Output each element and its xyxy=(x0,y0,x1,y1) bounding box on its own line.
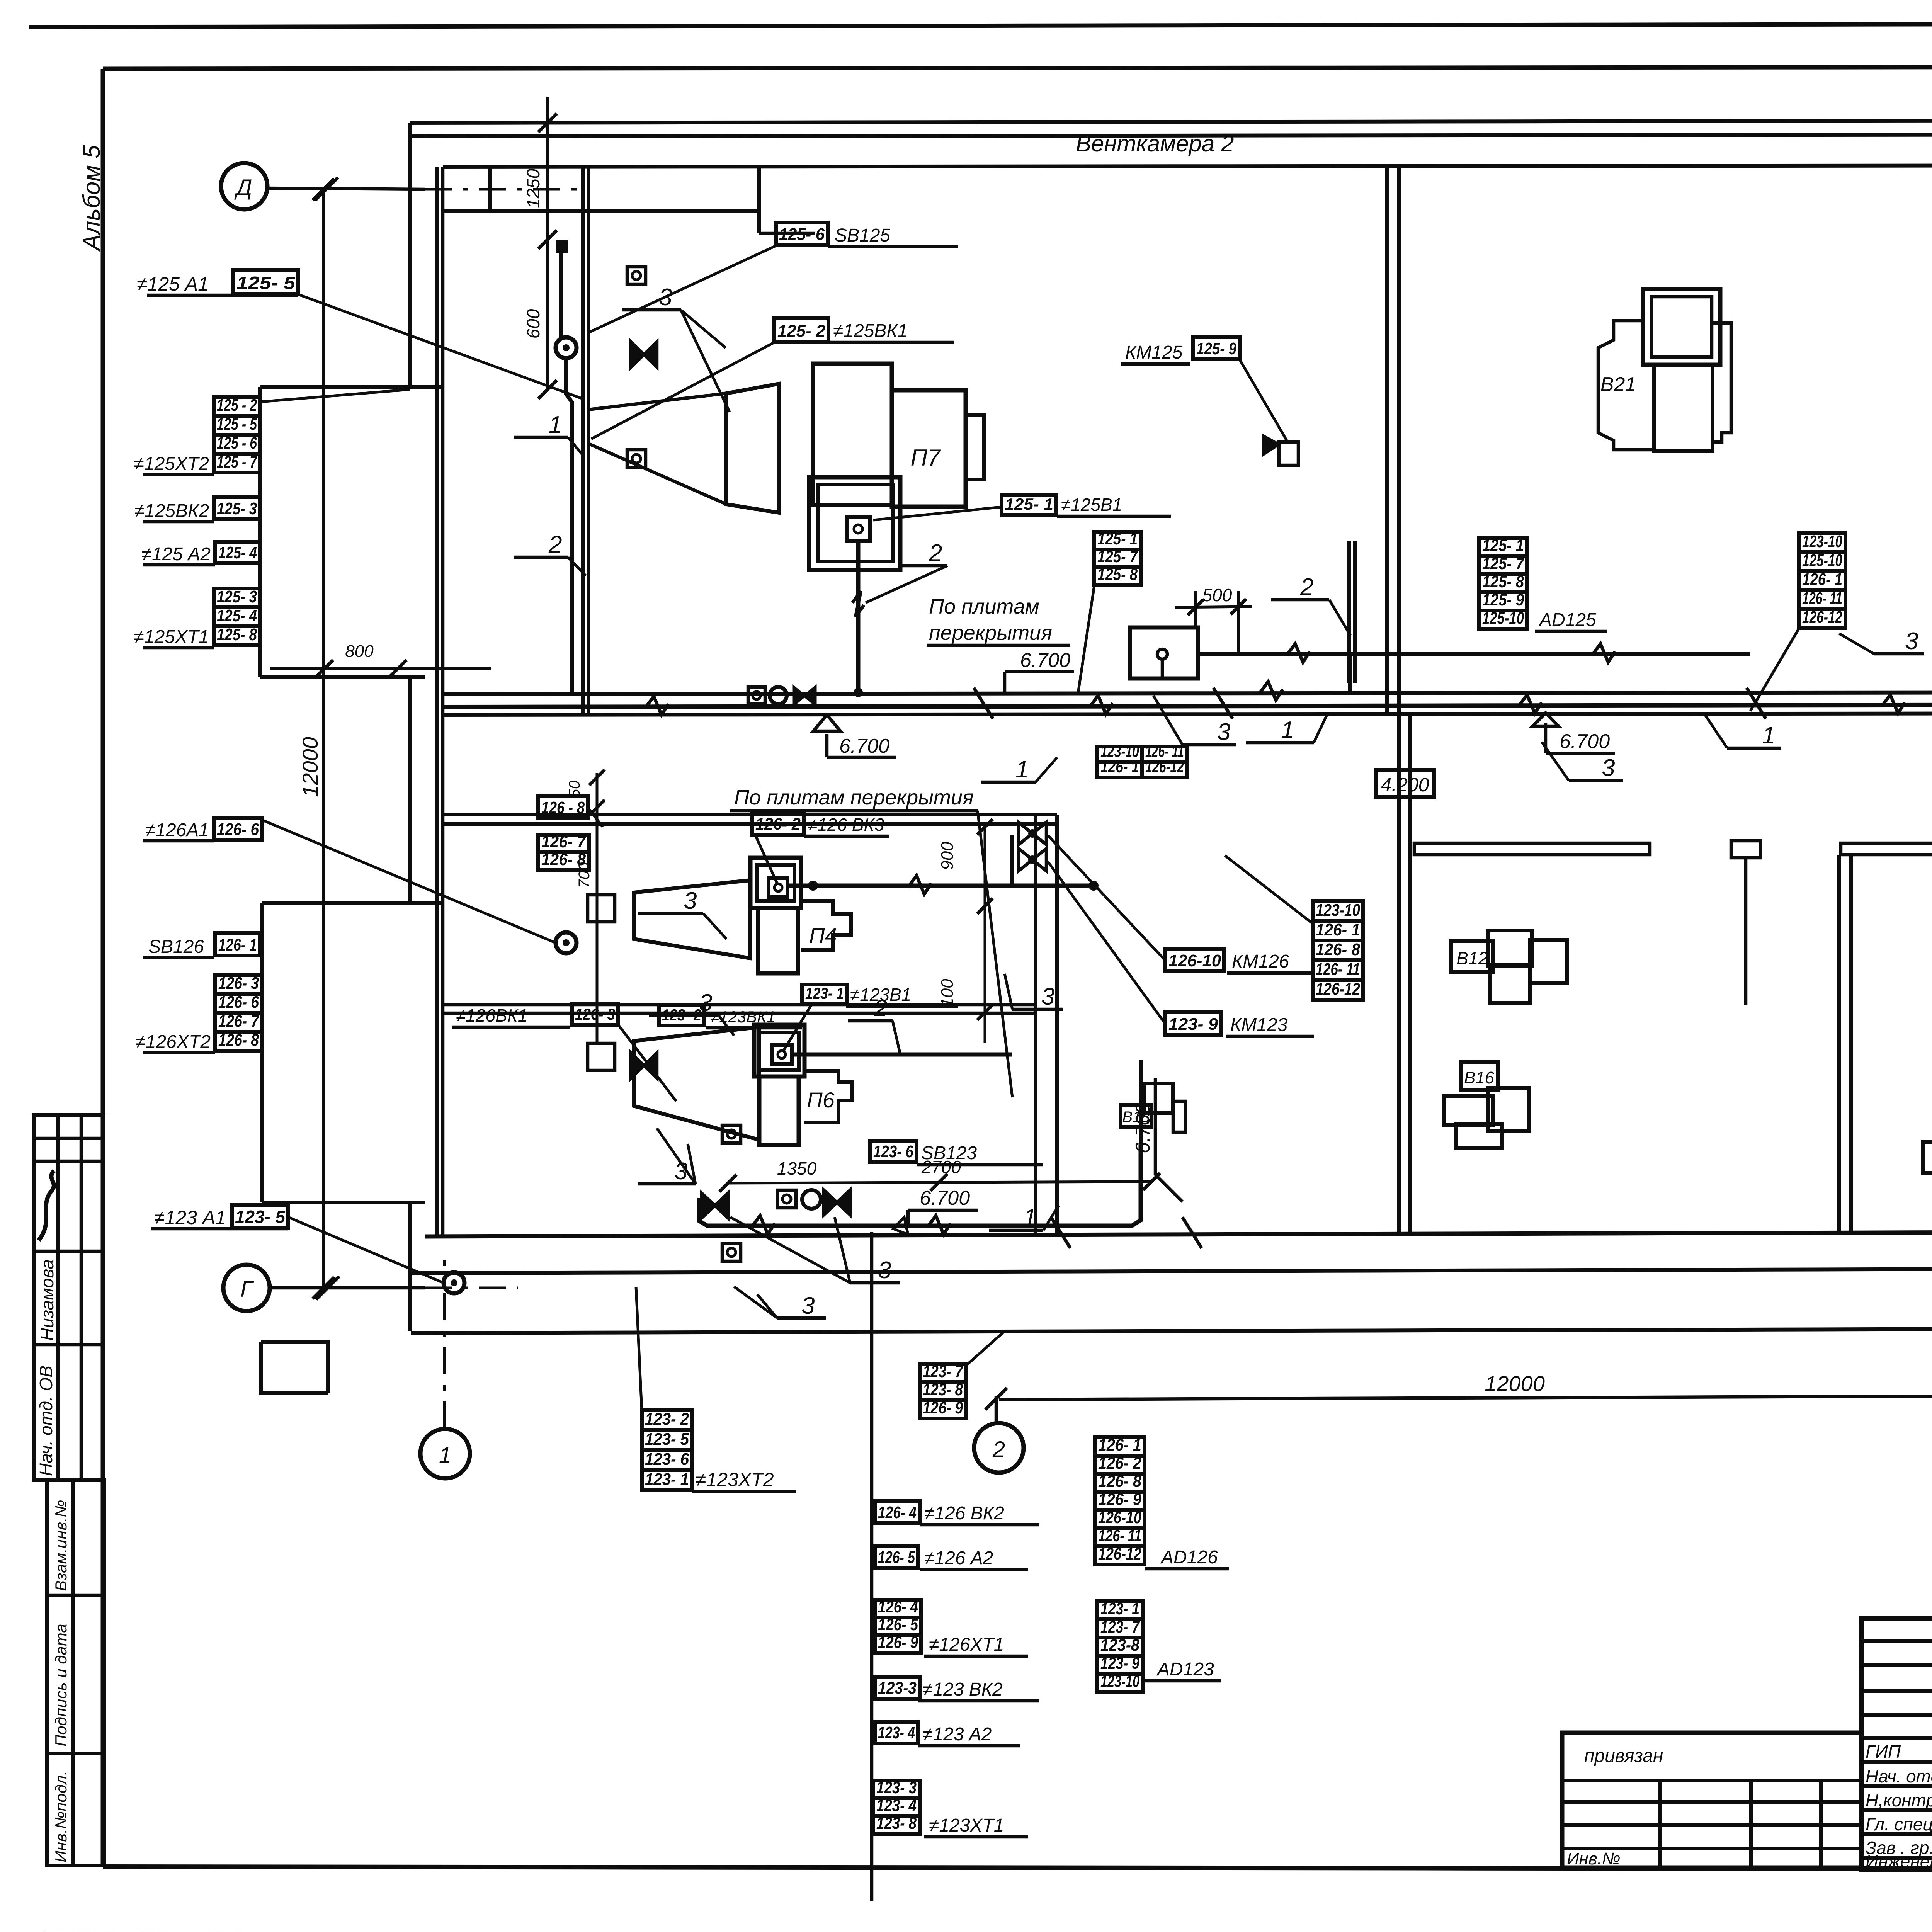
P4 duct xyxy=(588,895,615,922)
vent unit B16 left box xyxy=(1444,1096,1493,1125)
bottom leader vertical xyxy=(870,1232,874,1901)
svg-text:В16: В16 xyxy=(1464,1068,1495,1087)
svg-text:1: 1 xyxy=(549,412,562,438)
mid wall bottom line xyxy=(443,713,1932,715)
cable junction dot a xyxy=(809,882,817,889)
lower rooms top wall line 2 xyxy=(443,822,1057,826)
leader KM125 xyxy=(1240,359,1287,440)
dim tick 900b xyxy=(977,898,993,914)
west wall inner line full xyxy=(435,387,439,903)
top-left dim tick 3 xyxy=(538,380,557,399)
svg-text:600: 600 xyxy=(523,309,543,338)
svg-text:123- 2: 123- 2 xyxy=(645,1410,689,1429)
svg-text:3: 3 xyxy=(699,990,712,1016)
svg-text:6.700: 6.700 xyxy=(1020,649,1070,672)
svg-text:3: 3 xyxy=(659,284,672,311)
south outline line C xyxy=(411,1328,1932,1333)
P7 funnel xyxy=(726,384,779,513)
stack 126-3 group xyxy=(215,975,262,994)
label 123VK2 xyxy=(875,1677,920,1699)
leader 126VK3 xyxy=(755,835,778,885)
cable south break 2 xyxy=(927,1216,951,1234)
vertical dim tick bottom xyxy=(313,1277,334,1299)
device circle on wall xyxy=(770,687,787,704)
svg-text:КМ126: КМ126 xyxy=(1232,951,1289,972)
label 123VK1 xyxy=(659,1005,704,1026)
svg-text:126-12: 126-12 xyxy=(1316,980,1360,998)
svg-text:Венткамера 2: Венткамера 2 xyxy=(1076,131,1234,156)
svg-text:123- 6: 123- 6 xyxy=(873,1142,913,1161)
paper top edge line xyxy=(29,23,1932,27)
svg-text:126- 6: 126- 6 xyxy=(218,993,259,1012)
svg-text:Взам.инв.№: Взам.инв.№ xyxy=(52,1500,70,1591)
fan unit P7 motor circle xyxy=(854,525,862,533)
mid wall cable line xyxy=(443,705,1932,707)
junction circle symbol 2 xyxy=(556,932,577,953)
vent unit B12 bottom square xyxy=(1490,964,1530,1003)
dim tick 800a xyxy=(316,660,333,677)
fire damper black square xyxy=(556,240,568,253)
stack 126-4 group xyxy=(875,1600,921,1617)
dim tick 500b xyxy=(1231,599,1246,614)
svg-text:≠123 А2: ≠123 А2 xyxy=(923,1724,992,1745)
title row line 7 xyxy=(1861,1784,1932,1788)
leader stack 123-2 xyxy=(636,1287,642,1411)
vent unit B12 right box xyxy=(1530,940,1567,983)
stack 125-3 group xyxy=(214,588,260,607)
svg-text:126- 3: 126- 3 xyxy=(218,974,259,993)
label 126 A2b xyxy=(875,1546,918,1568)
cable P7 breakmark xyxy=(852,591,864,617)
title annex row privyazan bottom xyxy=(1562,1779,1861,1782)
girder band mid square xyxy=(1731,841,1760,858)
svg-text:123- 4: 123- 4 xyxy=(876,1796,917,1815)
svg-text:≠126 ВК2: ≠126 ВК2 xyxy=(924,1503,1004,1524)
svg-text:126- 1: 126- 1 xyxy=(1100,757,1139,776)
stack 126-7 8 group xyxy=(538,835,589,852)
svg-text:125- 4: 125- 4 xyxy=(218,543,257,562)
axis 2 circle xyxy=(974,1423,1024,1473)
dim line 1350-2700 xyxy=(726,1182,1151,1183)
leader 125-5 xyxy=(298,294,583,399)
air valve bowtie 2 xyxy=(631,1053,657,1078)
fan unit P4 base outer xyxy=(750,858,801,908)
fan unit P7 base outer xyxy=(809,477,900,570)
svg-text:Нач. отд.: Нач. отд. xyxy=(1866,1766,1932,1786)
svg-text:125- 3: 125- 3 xyxy=(217,499,257,518)
svg-text:≠126ХТ2: ≠126ХТ2 xyxy=(136,1032,211,1052)
svg-text:АD123: АD123 xyxy=(1156,1659,1214,1680)
hall wall line 2 xyxy=(1849,855,1853,1233)
svg-text:12000: 12000 xyxy=(1485,1371,1545,1396)
svg-text:≠126 А2: ≠126 А2 xyxy=(924,1548,993,1568)
svg-text:125- 2: 125- 2 xyxy=(777,321,826,340)
svg-text:П4: П4 xyxy=(809,923,837,947)
stamp upper table outline xyxy=(34,1115,104,1480)
svg-text:125- 4: 125- 4 xyxy=(217,606,257,625)
svg-text:125 - 6: 125 - 6 xyxy=(217,434,257,452)
top-left dim tick 1 xyxy=(538,114,557,132)
leader 126-8 xyxy=(588,808,603,827)
closet divider xyxy=(488,167,492,211)
stamp upper row line 0 xyxy=(34,1137,104,1140)
device box with circle 5 xyxy=(748,687,765,704)
south bulge lines xyxy=(261,1342,328,1393)
fan unit P6 motor circle xyxy=(778,1051,786,1058)
label KM126 xyxy=(1165,949,1224,971)
cable riser vertical xyxy=(1132,1060,1141,1226)
svg-text:125-10: 125-10 xyxy=(1482,609,1524,628)
svg-text:КМ123: КМ123 xyxy=(1230,1015,1288,1035)
vent unit B16 plate xyxy=(1461,1062,1498,1090)
label 126VK2 xyxy=(875,1501,920,1523)
svg-text:6.700: 6.700 xyxy=(1560,730,1610,753)
svg-text:≠126ВК1: ≠126ВК1 xyxy=(456,1005,527,1026)
svg-text:ГИП: ГИП xyxy=(1866,1742,1901,1762)
svg-text:1250: 1250 xyxy=(523,168,543,208)
svg-text:2: 2 xyxy=(992,1437,1005,1462)
axis 2 line xyxy=(995,1396,998,1423)
vent unit B20 plate xyxy=(1923,1142,1932,1173)
axis 1 circle xyxy=(420,1429,470,1478)
central wall upper line 2 xyxy=(1397,165,1401,715)
svg-text:3: 3 xyxy=(801,1293,815,1319)
svg-text:≠126ХТ1: ≠126ХТ1 xyxy=(929,1634,1004,1655)
svg-text:АD126: АD126 xyxy=(1160,1547,1218,1568)
cable vent break 1 xyxy=(1287,644,1310,662)
svg-text:По плитам перекрытия: По плитам перекрытия xyxy=(734,786,974,809)
axis G dash into plan xyxy=(425,1287,518,1289)
svg-text:Альбом 5: Альбом 5 xyxy=(78,145,105,252)
stack 2x2 group xyxy=(1097,747,1142,762)
svg-text:≠126А1: ≠126А1 xyxy=(145,820,209,840)
west bulge2 bottom line xyxy=(262,1201,425,1204)
svg-text:3: 3 xyxy=(1217,719,1230,745)
P4P6 divider line 2 xyxy=(443,1012,1036,1015)
axis D circle xyxy=(221,163,267,209)
vent unit B16 center square xyxy=(1488,1088,1529,1131)
west wall outer line xyxy=(408,123,412,387)
svg-text:125- 1: 125- 1 xyxy=(1097,529,1138,548)
svg-text:3: 3 xyxy=(1602,755,1615,781)
P7 room top xyxy=(759,232,815,235)
fan unit P6 side xyxy=(804,1071,852,1122)
title annex row line 4 xyxy=(1562,1847,1861,1850)
label SB125 xyxy=(776,223,828,245)
svg-text:126- 6: 126- 6 xyxy=(217,820,259,839)
title main outline xyxy=(1861,1619,1932,1869)
top-left dim line 1250-600 xyxy=(546,97,549,389)
leader 125V1 xyxy=(873,507,1002,520)
air valve bowtie 3 xyxy=(702,1193,728,1218)
west inner wall line xyxy=(441,167,445,1235)
stack 126-1 seven group xyxy=(1095,1437,1145,1456)
axis G tick xyxy=(316,1276,339,1299)
svg-text:126- 4: 126- 4 xyxy=(878,1503,917,1522)
svg-text:123- 9: 123- 9 xyxy=(1100,1654,1139,1673)
fan unit P7 side box xyxy=(892,390,966,507)
P7 duct line 1 xyxy=(588,393,726,410)
svg-text:125- 3: 125- 3 xyxy=(217,587,257,606)
girder band rect 1 xyxy=(1414,843,1650,855)
west bulge top line xyxy=(260,385,443,389)
svg-text:900: 900 xyxy=(938,842,957,870)
dim line 500 xyxy=(1175,607,1252,607)
svg-text:126- 1: 126- 1 xyxy=(1316,920,1360,939)
svg-text:123- 1: 123- 1 xyxy=(1100,1599,1139,1618)
svg-text:≠125ВК1: ≠125ВК1 xyxy=(833,321,908,341)
svg-text:126- 1: 126- 1 xyxy=(1802,570,1842,589)
svg-text:≠123ХТ1: ≠123ХТ1 xyxy=(929,1815,1004,1836)
device box with circle 6 xyxy=(777,1190,796,1208)
svg-text:SВ123: SВ123 xyxy=(921,1143,977,1163)
svg-text:126- 9: 126- 9 xyxy=(878,1633,918,1652)
svg-text:125- 7: 125- 7 xyxy=(1097,547,1138,566)
west bulge bottom line xyxy=(260,675,425,679)
svg-text:≠125ВК2: ≠125ВК2 xyxy=(134,501,209,521)
title annex row line 2 xyxy=(1562,1800,1861,1804)
vent unit B21 right flange xyxy=(1713,323,1731,442)
svg-text:123- 1: 123- 1 xyxy=(645,1470,689,1489)
cable partition vertical xyxy=(559,253,563,340)
frame top border line xyxy=(103,66,1932,69)
svg-text:126-10: 126-10 xyxy=(1168,951,1221,970)
svg-text:126- 7: 126- 7 xyxy=(218,1012,260,1031)
stack 123-7 group xyxy=(920,1364,966,1382)
svg-text:перекрытия: перекрытия xyxy=(929,621,1052,645)
svg-text:123- 8: 123- 8 xyxy=(876,1814,917,1833)
svg-text:126- 7: 126- 7 xyxy=(541,832,587,851)
svg-text:123- 6: 123- 6 xyxy=(645,1450,689,1469)
stamp lower row line 2 xyxy=(47,1752,104,1755)
mid wall top line xyxy=(443,692,1932,694)
device box with circle 1 xyxy=(627,267,646,284)
cable south wall run xyxy=(699,1144,1141,1226)
stamp upper row line 3 xyxy=(34,1343,104,1347)
KM125 device xyxy=(1279,442,1298,465)
svg-text:Низамова: Низамова xyxy=(37,1259,57,1341)
svg-text:126- 3: 126- 3 xyxy=(575,1005,615,1023)
leader stack 123-7 xyxy=(966,1331,1005,1366)
svg-text:3: 3 xyxy=(1905,628,1918,655)
svg-text:≠125 А2: ≠125 А2 xyxy=(142,544,211,565)
svg-text:123- 3: 123- 3 xyxy=(876,1778,917,1797)
svg-text:Инв.№подл.: Инв.№подл. xyxy=(52,1771,70,1862)
svg-text:123- 7: 123- 7 xyxy=(1100,1617,1140,1636)
svg-text:2: 2 xyxy=(874,995,887,1022)
dim tick 1350a xyxy=(719,1175,736,1192)
P7 room wall xyxy=(757,167,761,233)
air valve black triangle 1 xyxy=(794,687,815,705)
svg-text:Нач. отд. ОВ: Нач. отд. ОВ xyxy=(36,1366,56,1476)
vent partition wall line 1 xyxy=(581,167,585,715)
lower central wall line 1 xyxy=(1034,815,1037,1235)
svg-text:1: 1 xyxy=(1281,717,1294,743)
mid cable tick 1 xyxy=(974,688,993,719)
west wall inner line 3 xyxy=(435,903,439,1235)
svg-text:123-10: 123-10 xyxy=(1316,901,1360,920)
stamp upper row line 1 xyxy=(34,1160,104,1163)
cable device box 500 xyxy=(1130,628,1198,679)
svg-text:125- 1: 125- 1 xyxy=(1482,536,1524,555)
leader 126A1 xyxy=(262,820,556,943)
svg-text:126- 4: 126- 4 xyxy=(878,1597,918,1616)
stack 125-1 group xyxy=(1094,532,1141,549)
bottom dim line 12000 xyxy=(999,1396,1932,1400)
svg-text:4.200: 4.200 xyxy=(1381,774,1429,796)
svg-text:1: 1 xyxy=(1023,1204,1036,1231)
svg-text:≠125ХТ1: ≠125ХТ1 xyxy=(134,627,209,647)
svg-text:123-10: 123-10 xyxy=(1802,532,1842,551)
svg-text:125 - 2: 125 - 2 xyxy=(217,396,257,415)
svg-text:123- 9: 123- 9 xyxy=(1168,1015,1218,1034)
svg-text:6.700: 6.700 xyxy=(920,1187,970,1209)
svg-text:123-8: 123-8 xyxy=(1100,1636,1139,1655)
svg-text:123- 1: 123- 1 xyxy=(805,984,844,1002)
mid cable tick 2 xyxy=(1213,688,1233,719)
west bulge2 left line xyxy=(260,903,264,1202)
title row line 4 xyxy=(1861,1713,1932,1717)
title row line 5 xyxy=(1861,1736,1932,1740)
device box with circle 2 xyxy=(627,450,646,468)
lower rooms top wall line 1 xyxy=(443,813,1057,816)
title row line 10 xyxy=(1861,1856,1932,1860)
leader stack mid right xyxy=(1225,855,1313,923)
wall stub pair near junction xyxy=(1347,541,1351,683)
svg-text:126- 8: 126- 8 xyxy=(1098,1472,1141,1491)
stamp lower row line 1 xyxy=(47,1594,104,1597)
title annex col 1 xyxy=(1658,1781,1662,1867)
svg-text:≠125ХТ2: ≠125ХТ2 xyxy=(134,454,209,474)
svg-text:123- 7: 123- 7 xyxy=(923,1362,964,1381)
P6 funnel xyxy=(634,1027,759,1140)
title annex col 3 xyxy=(1819,1781,1823,1867)
svg-text:126- 5: 126- 5 xyxy=(878,1615,918,1634)
fan unit P7 tab xyxy=(966,415,984,480)
leader 125VK1 xyxy=(591,342,774,439)
central wall upper line 1 xyxy=(1385,165,1389,715)
cable junction riser xyxy=(1348,654,1352,692)
mid cable break 3b xyxy=(1260,682,1283,700)
svg-text:500: 500 xyxy=(1202,585,1232,605)
svg-text:125- 8: 125- 8 xyxy=(1097,565,1138,584)
west bulge2 top line xyxy=(262,901,443,905)
dim vline 50-700 xyxy=(596,773,599,1043)
vent unit B12 top square xyxy=(1488,930,1532,966)
mid cable break 1 xyxy=(645,696,668,715)
junction circle symbol 3 xyxy=(444,1272,464,1293)
west wall outer line 3 xyxy=(408,1202,412,1331)
title row line 3 xyxy=(1861,1689,1932,1693)
title row line 2 xyxy=(1861,1663,1932,1667)
svg-text:В12: В12 xyxy=(1456,948,1488,968)
west wall outer line 2 xyxy=(408,677,412,903)
leader stack right top xyxy=(1750,628,1799,711)
svg-text:3: 3 xyxy=(1041,983,1054,1010)
svg-text:По плитам: По плитам xyxy=(929,595,1039,618)
fan unit P4 base inner xyxy=(757,865,794,901)
svg-text:В21: В21 xyxy=(1600,373,1636,396)
svg-text:126- 1: 126- 1 xyxy=(218,935,257,954)
svg-text:125 - 5: 125 - 5 xyxy=(217,415,257,434)
svg-text:1: 1 xyxy=(1762,722,1775,749)
fan unit P6 body xyxy=(759,1077,799,1145)
stamp lower col divider xyxy=(71,1480,75,1866)
title row line 8 xyxy=(1861,1808,1932,1812)
dim line 800 xyxy=(270,667,491,670)
svg-text:SВ125: SВ125 xyxy=(835,225,890,246)
axis G circle xyxy=(223,1265,270,1311)
svg-text:Н,контр.: Н,контр. xyxy=(1866,1790,1932,1810)
cable P4 break xyxy=(908,876,931,894)
svg-text:2: 2 xyxy=(929,540,942,566)
fan unit P4 motor square xyxy=(769,878,787,897)
svg-text:123-10: 123-10 xyxy=(1100,1672,1139,1691)
fan unit P6 base inner xyxy=(759,1032,799,1070)
title row line 6 xyxy=(1861,1760,1932,1764)
south bulge left xyxy=(261,1342,328,1393)
vertical dim line 12000 xyxy=(322,189,325,1288)
stack right top group xyxy=(1799,533,1845,552)
cable center vertical xyxy=(1010,835,1014,886)
west bulge left line xyxy=(258,387,262,677)
fan unit P6 motor square xyxy=(772,1045,792,1064)
cable partition vertical 2 xyxy=(566,359,572,692)
svg-text:1: 1 xyxy=(439,1443,451,1468)
south inner wall line A xyxy=(425,1232,1932,1236)
svg-text:П6: П6 xyxy=(807,1088,835,1112)
svg-text:3: 3 xyxy=(878,1257,891,1284)
svg-text:КМ125: КМ125 xyxy=(1125,342,1183,363)
P4 funnel xyxy=(634,880,750,958)
air valve bowtie 4 xyxy=(824,1190,850,1215)
svg-text:126- 11: 126- 11 xyxy=(1316,960,1360,979)
svg-text:126- 2: 126- 2 xyxy=(1098,1454,1141,1473)
dim tick 50b xyxy=(589,800,605,815)
label 126-8 single xyxy=(538,796,588,818)
vertical dim tick top xyxy=(313,179,334,200)
cable vent chamber horizontal xyxy=(1198,652,1750,656)
svg-text:123- 5: 123- 5 xyxy=(645,1430,689,1449)
mid cable tick 3 xyxy=(1747,688,1766,719)
vent unit B21 body xyxy=(1654,365,1713,451)
leader 123V1 xyxy=(783,1005,811,1052)
junction circle symbol 1 xyxy=(556,337,577,358)
girder band rect 2 xyxy=(1841,843,1932,855)
axis D tick xyxy=(315,177,338,201)
svg-text:126-12: 126-12 xyxy=(1098,1544,1141,1563)
svg-text:1: 1 xyxy=(1015,756,1029,783)
stamp upper col divider 2 xyxy=(80,1115,83,1480)
axis D dash into plan xyxy=(425,188,587,191)
vent unit B16 bottom box xyxy=(1456,1124,1502,1148)
svg-text:привязан: привязан xyxy=(1584,1746,1663,1766)
leader stack 125-1 xyxy=(1078,586,1094,693)
label SB123 xyxy=(870,1141,917,1162)
svg-text:≠125В1: ≠125В1 xyxy=(1061,495,1122,515)
fan unit P4 body xyxy=(758,908,798,973)
axis G line xyxy=(270,1286,425,1290)
svg-text:3: 3 xyxy=(684,888,697,914)
elevation 4.200 box xyxy=(1376,770,1434,797)
north canopy line xyxy=(410,121,1932,123)
svg-text:126-10: 126-10 xyxy=(1098,1508,1141,1527)
svg-text:126-12: 126-12 xyxy=(1802,608,1842,627)
air valve bowtie 1 xyxy=(631,342,657,367)
vent unit B18 right tab xyxy=(1173,1101,1185,1132)
vent unit B21 outer square xyxy=(1643,289,1720,365)
cable P6 horizontal xyxy=(793,1053,1012,1057)
